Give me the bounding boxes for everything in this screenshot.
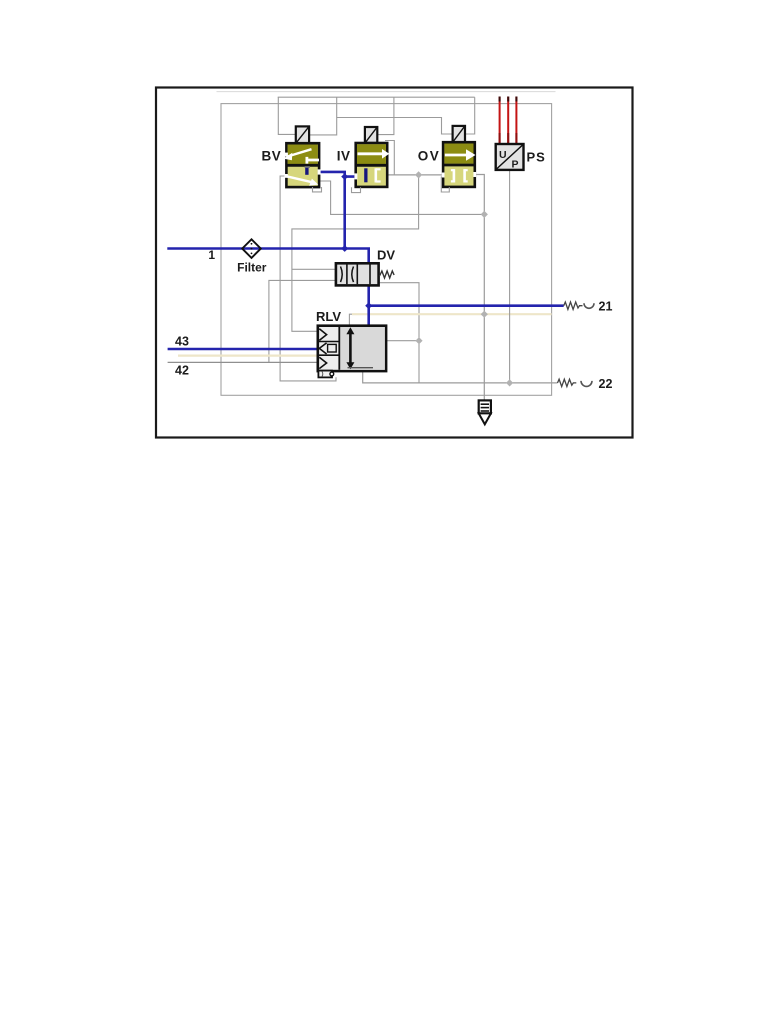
wire IV solenoid right <box>377 97 394 134</box>
solenoid BV <box>296 126 309 143</box>
OV right blocked bracket <box>465 170 468 181</box>
blue line BV outlet to IV with jog <box>307 172 365 177</box>
wire DV lower-left port from 42 line <box>269 280 336 362</box>
outer schematic frame <box>156 88 633 438</box>
inactive line to port 21 (beige) <box>352 313 552 315</box>
valve OV <box>441 126 476 192</box>
BV bottom chamber arrow <box>285 176 314 183</box>
RLV cell2 chevron <box>319 343 326 354</box>
wire OV right port to silencer line <box>475 175 485 401</box>
port 22 cup <box>581 381 592 387</box>
IV top chamber arrow <box>358 152 383 155</box>
DV spring <box>380 271 395 278</box>
OV left blocked bracket <box>451 170 454 181</box>
svg-text:21: 21 <box>599 300 613 314</box>
wire OV solenoid right <box>465 97 475 134</box>
svg-text:PS: PS <box>527 150 546 165</box>
svg-text:RLV: RLV <box>316 309 341 324</box>
BV drain bracket <box>313 187 322 192</box>
wire IV right port to OV left port <box>387 174 443 176</box>
IV drain bracket <box>352 187 361 192</box>
svg-text:22: 22 <box>599 377 613 391</box>
junction BV drain / silencer line <box>481 211 488 218</box>
junction blue 21 branch <box>365 302 372 309</box>
wire BV solenoid left <box>278 97 296 134</box>
RLV cell3 chevron <box>319 357 326 368</box>
wire rail C to OV solenoid left <box>337 118 453 135</box>
RLV drain box <box>318 371 332 378</box>
wire DV right port bypass down to 22 line <box>379 283 419 383</box>
svg-text:IV: IV <box>337 149 351 164</box>
IV blocked port bracket <box>376 169 381 181</box>
BV blue port bar <box>305 168 308 175</box>
port 21 cup <box>584 303 594 308</box>
svg-text:Filter: Filter <box>237 261 267 275</box>
svg-text:OV: OV <box>418 149 441 164</box>
body IV <box>356 143 388 187</box>
solenoid IV <box>365 127 377 143</box>
manifold rectangle <box>221 104 552 396</box>
valve BV <box>283 126 321 191</box>
blue line to port 21 <box>369 304 564 307</box>
body BV <box>286 143 319 187</box>
BV port gap notches <box>285 153 288 157</box>
wire RLV top-left port up <box>349 314 360 326</box>
faint manifold outline top <box>217 91 556 93</box>
RLV piston arrow <box>349 332 352 366</box>
port 21 spring symbol <box>564 302 583 309</box>
BV top chamber arrow <box>288 149 312 156</box>
RLV cell1 chevron <box>319 329 326 341</box>
wire PS sense line down to 22 line <box>509 170 511 383</box>
svg-text:43: 43 <box>175 334 189 348</box>
main supply line 1 (blue) <box>167 249 368 326</box>
wire BV solenoid right <box>309 97 337 135</box>
blue line 43 <box>168 348 318 351</box>
wire 42 <box>168 361 318 363</box>
BV port collar <box>305 166 310 168</box>
BV top chamber blocked port T <box>307 157 319 164</box>
blue line IV down to main <box>343 177 346 249</box>
wire OV branch down-left to RLV top cell <box>292 175 419 331</box>
junction DV bypass / RLV right <box>415 337 422 344</box>
svg-text:P: P <box>512 159 519 171</box>
svg-text:BV: BV <box>262 149 282 164</box>
filter F1 <box>242 239 261 258</box>
wire BV bottom-right port across to silencer line <box>319 181 484 214</box>
red wires to PS <box>500 97 517 145</box>
relay valve RLV <box>318 326 386 378</box>
junction beige 21 / silencer line <box>481 311 488 318</box>
inactive line 43 branch (beige) <box>178 355 318 357</box>
OV top chamber arrow <box>445 154 467 157</box>
wire RLV bottom to port 22 <box>363 371 558 383</box>
junction blue BV/IV <box>341 173 348 180</box>
pressure switch PS <box>496 144 524 171</box>
silencer <box>479 400 491 424</box>
valve IV <box>352 127 390 193</box>
wire RLV right port <box>386 340 419 342</box>
svg-text:U: U <box>499 149 507 161</box>
wire DV upper-left port <box>292 268 336 270</box>
port 22 spring symbol <box>558 379 577 386</box>
OV port gaps <box>442 173 445 178</box>
junction OV left port <box>415 171 422 178</box>
svg-text:1: 1 <box>208 248 215 262</box>
junction PS line / 22 line <box>506 379 513 386</box>
wire IV pilot detour <box>385 141 394 175</box>
body OV <box>443 142 475 187</box>
wire BV bottom-left port drain to RLV drain box <box>280 176 336 381</box>
throttle valve DV <box>336 263 394 285</box>
IV blue port bar <box>364 168 367 182</box>
OV drain bracket <box>441 177 449 193</box>
DV throttle curves <box>341 267 343 283</box>
svg-text:42: 42 <box>175 364 189 378</box>
svg-text:DV: DV <box>377 248 395 263</box>
solenoid return rail A <box>278 96 475 98</box>
solenoid OV <box>453 126 465 142</box>
junction blue main line <box>341 245 348 252</box>
